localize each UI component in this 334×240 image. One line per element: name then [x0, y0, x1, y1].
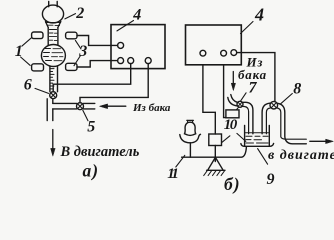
svg-text:а): а)	[83, 161, 100, 181]
arrow from tank down into pipe 7	[231, 72, 235, 91]
wire terminal E to box 10	[203, 65, 215, 134]
wire terminal F to solenoid of valve 7	[224, 65, 226, 118]
pointer line label 2	[65, 14, 76, 19]
svg-text:1: 1	[15, 43, 23, 60]
svg-text:9: 9	[267, 171, 275, 188]
arrow from tank (left-pointing)	[100, 104, 126, 109]
valve 7	[237, 101, 243, 107]
upper bulb 2	[42, 5, 63, 23]
control unit box 4 (right)	[186, 25, 242, 65]
liquid dashes in lower bulb	[44, 49, 64, 61]
float chamber 9: right wall	[268, 125, 270, 146]
bell stand dish	[180, 134, 201, 143]
svg-text:11: 11	[167, 166, 177, 182]
graduation ticks on lower tube	[50, 69, 54, 89]
down arrow to engine	[51, 130, 55, 157]
pointer line label 1	[21, 38, 32, 66]
bell stem to ground wire	[189, 143, 191, 157]
link valve 7 to its solenoid	[236, 107, 238, 110]
resistor box 10	[209, 134, 222, 146]
pointer line label 4 (right)	[241, 22, 254, 34]
valve 5 (inlet valve)	[77, 103, 84, 110]
svg-text:4: 4	[254, 5, 264, 25]
liquid surface in funnel	[46, 22, 61, 24]
svg-text:б): б)	[224, 174, 241, 194]
svg-text:5: 5	[87, 119, 95, 136]
svg-text:10: 10	[224, 117, 238, 133]
pointer line label 3	[74, 40, 81, 65]
funnel below upper bulb	[46, 22, 61, 28]
pointer line label 5	[83, 110, 88, 121]
ground bus wire	[182, 147, 247, 157]
svg-text:В двигатель: В двигатель	[60, 144, 140, 160]
terminal A	[118, 42, 124, 48]
electrode wire into tank liquid	[237, 133, 246, 141]
pointer line label 11	[176, 155, 185, 167]
solenoid box of valve 7	[226, 110, 239, 118]
valve 6 (solenoid drain valve)	[50, 92, 57, 99]
float chamber 9: bottom tray	[241, 143, 274, 146]
pointer line label 7	[241, 93, 246, 101]
wire terminal C to valve 6	[53, 64, 131, 92]
pipe 8 siphon: left (dip) leg	[262, 103, 270, 134]
upper tube	[48, 28, 58, 46]
lower bulb	[41, 45, 65, 67]
terminal B	[118, 58, 124, 64]
wire terminal G to valve 8	[237, 53, 275, 102]
electrode plate upper-left	[32, 32, 43, 39]
pipe 7 from tank into float chamber	[231, 95, 238, 103]
outlet pipe below valve 6	[47, 99, 53, 121]
earth ground symbol	[207, 157, 225, 170]
neck	[49, 2, 58, 7]
wire from upper-right electrode to terminal A	[77, 36, 118, 46]
pointer line label 8	[280, 94, 292, 105]
pipe 8 siphon: right leg and outlet	[277, 103, 306, 144]
terminal E	[200, 50, 206, 56]
terminal G	[231, 50, 237, 56]
svg-text:Из бака: Из бака	[132, 102, 171, 114]
electrode plate upper-right	[66, 32, 77, 39]
svg-text:в двигатель: в двигатель	[268, 148, 334, 163]
fuel level lines in chamber	[245, 133, 268, 143]
pointer line label 6	[35, 88, 49, 93]
svg-text:6: 6	[24, 76, 32, 93]
control unit box 4 (left)	[111, 25, 165, 69]
pointer line label 9	[258, 149, 268, 165]
svg-text:4: 4	[132, 7, 141, 24]
terminal D	[145, 58, 151, 64]
wire terminal D to valve 5	[80, 64, 148, 103]
terminal C	[128, 58, 134, 64]
pointer line label 4 (left)	[117, 21, 134, 31]
wire from lower-right electrode to terminal B	[77, 61, 118, 67]
liquid dashes in upper tube	[47, 25, 60, 40]
electrode plate lower-left	[32, 64, 44, 71]
lower tube	[50, 66, 58, 92]
svg-text:7: 7	[249, 80, 258, 97]
pointer line label 10	[222, 136, 230, 143]
signal device 11 (bell)	[187, 119, 194, 121]
stem from box 10 to earth	[214, 146, 216, 162]
inlet pipe stub right of valve 5	[84, 103, 95, 109]
electrode plate lower-right	[66, 63, 77, 70]
svg-text:3: 3	[78, 43, 87, 60]
svg-text:2: 2	[75, 5, 84, 22]
terminal F	[221, 50, 227, 56]
horizontal pipe to valve 5	[53, 103, 77, 109]
outlet arrow to engine (right-pointing)	[310, 139, 333, 143]
float chamber 9: left wall	[244, 125, 246, 146]
valve 8	[270, 101, 278, 109]
svg-text:8: 8	[293, 80, 301, 97]
